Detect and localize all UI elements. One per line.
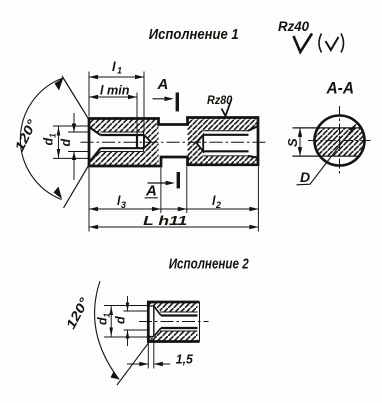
roughness check symbol large — [294, 34, 313, 53]
v2 extension counterbore down — [153, 338, 155, 369]
Rz80 check on surface — [222, 99, 232, 116]
v2 extension d bottom — [124, 329, 148, 331]
dimension S — [299, 128, 301, 156]
thread minor lines left hole — [101, 135, 145, 148]
v2 thread minor lines — [161, 316, 198, 329]
svg-text:120°: 120° — [12, 116, 40, 153]
svg-text:1,5: 1,5 — [176, 353, 194, 367]
v2 dimension d outside arrows — [127, 296, 129, 311]
roughness check symbol small — [326, 37, 339, 50]
hatch right block top band — [188, 118, 259, 131]
section line bottom mark — [177, 172, 180, 188]
svg-text:A-A: A-A — [326, 80, 354, 98]
angle arc 120 — [20, 78, 63, 200]
v2 thread major lines — [160, 312, 198, 331]
v2 counterbore face line — [153, 306, 155, 337]
hatch left block bottom band — [89, 148, 159, 166]
svg-text:L h11: L h11 — [143, 214, 187, 228]
hatch right block left of drill cone — [188, 131, 204, 156]
hatch right block bottom band — [188, 156, 259, 165]
v2 body outline — [148, 302, 199, 342]
extension line left face up — [88, 72, 90, 117]
extension l3 right — [160, 168, 162, 214]
hatch v2 bottom band — [149, 331, 198, 341]
leader D — [297, 125, 356, 185]
v2 extension d top — [124, 310, 148, 312]
hatch left block right of drill cone — [144, 132, 159, 152]
svg-text:1: 1 — [49, 133, 58, 138]
v2 centerline — [139, 321, 209, 323]
centerline vertical A-A — [339, 106, 341, 175]
extension left face down — [88, 168, 90, 232]
svg-text:Rz40: Rz40 — [278, 19, 309, 34]
extension d1 bottom — [53, 157, 88, 159]
svg-text:A: A — [157, 76, 169, 93]
svg-text:d: d — [59, 139, 73, 147]
extension d top — [68, 131, 88, 133]
dimension l2 — [161, 208, 259, 210]
flat top line + S extension — [292, 127, 361, 129]
countersink right hole — [248, 126, 258, 158]
svg-text:Исполнение 2: Исполнение 2 — [169, 256, 250, 273]
section line top mark — [176, 93, 179, 112]
v2 extension d1 bottom — [104, 336, 147, 338]
countersink left hole — [89, 127, 101, 163]
v2 extension d1 top — [104, 305, 147, 307]
dimension d1 vertical — [58, 126, 60, 158]
dimension l3 — [89, 208, 161, 210]
svg-text:S: S — [285, 138, 300, 147]
svg-text:120°: 120° — [63, 294, 92, 331]
centerline main view — [81, 141, 266, 143]
v2 angle arc — [95, 281, 119, 379]
v2 extension face down — [147, 343, 149, 369]
drill point cone right hole — [197, 135, 204, 152]
hatch left block top band — [89, 119, 159, 136]
extension right face down — [257, 166, 259, 231]
svg-text:l: l — [112, 59, 116, 74]
extension line l min — [136, 93, 138, 135]
v2 dimension 1,5 outside arrows — [127, 363, 148, 365]
v2 countersink opening edges — [148, 306, 154, 337]
extension d bottom — [68, 151, 88, 153]
svg-text:d: d — [114, 316, 128, 324]
thread major lines left hole — [101, 132, 144, 152]
dimension l1 — [89, 76, 144, 78]
thread major lines right hole — [203, 131, 248, 156]
parenthesis left — [319, 34, 322, 53]
body outline — [89, 118, 258, 167]
svg-text:l min: l min — [100, 84, 130, 98]
v2 arc arrow bottom — [111, 372, 120, 380]
parenthesis right — [341, 34, 344, 53]
thread minor lines right hole — [203, 135, 248, 152]
svg-text:A: A — [145, 183, 157, 200]
arc arrow bottom — [54, 187, 63, 200]
svg-text:1: 1 — [117, 66, 122, 76]
svg-text:1: 1 — [103, 313, 112, 318]
hatch v2 top band — [149, 303, 198, 312]
v2 dimension d1 — [110, 306, 112, 337]
v2 break line right — [199, 302, 201, 342]
v2 chamfer ray — [117, 338, 153, 386]
v2 countersink cone — [154, 306, 161, 337]
extension line l1 — [143, 72, 145, 133]
extension d1 top — [53, 125, 88, 127]
dimension l min — [89, 96, 137, 98]
svg-text:3: 3 — [121, 200, 126, 210]
arc arrow top — [55, 78, 64, 91]
dimension L h11 — [89, 226, 258, 228]
flat bottom line + S extension — [292, 155, 359, 157]
drill point cone left hole — [144, 135, 151, 148]
svg-text:D: D — [300, 169, 310, 185]
svg-text:Исполнение 1: Исполнение 1 — [149, 26, 239, 43]
chamfer angle ray lower — [64, 163, 90, 208]
circle outline — [315, 116, 365, 166]
centerline horizontal A-A — [308, 140, 373, 142]
extension l2 left — [186, 166, 188, 213]
thread end thick line left hole — [136, 135, 138, 148]
chamfer angle ray upper — [62, 76, 90, 121]
svg-text:2: 2 — [215, 200, 221, 210]
dimension d vertical outside arrows — [73, 113, 75, 132]
